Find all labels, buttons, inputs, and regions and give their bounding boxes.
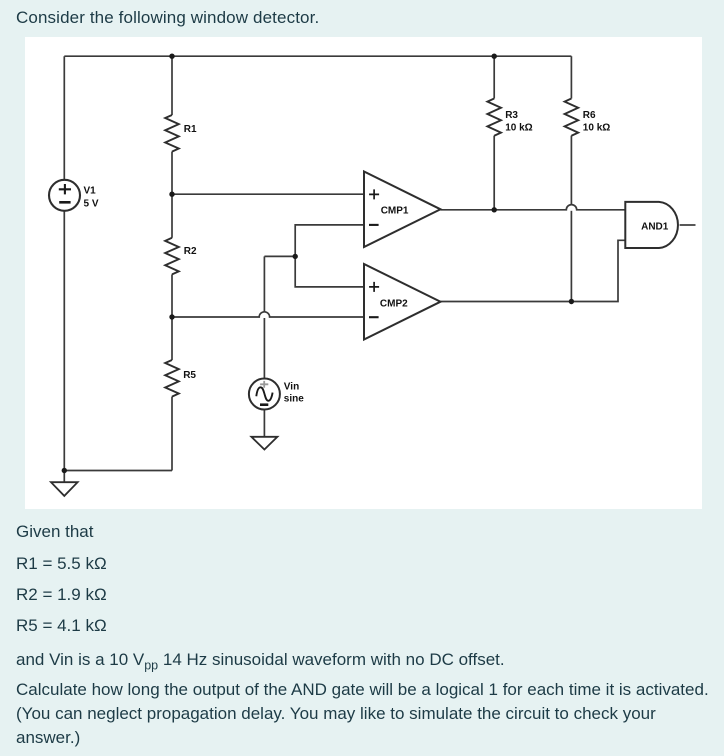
title text [16,8,319,28]
wire R6 bottom upper part [570,136,572,205]
wire left ground stub [63,471,65,483]
voltage source V1 circle [49,180,80,211]
ground left [51,482,78,496]
V1 plus sign [59,184,71,194]
node dot rail R1 [169,54,174,59]
CMP1 plus sign [369,189,379,199]
node dot R1/R2 divider tap [169,192,174,197]
svg-text:R6: R6 [583,110,596,121]
svg-text:CMP2: CMP2 [380,298,408,309]
wire R6 bottom lower part to CMP2 output node [570,211,572,302]
op-amp CMP1 [364,172,441,248]
wire R5 bottom vertical [171,397,173,471]
wire R3 top [493,56,495,98]
svg-text:10 kΩ: 10 kΩ [505,123,532,134]
wire CMP2 output to AND input 2 [441,240,626,301]
wire V1 bottom to ground node [63,211,65,471]
CMP1 minus sign [369,224,379,226]
node dot ground [62,468,67,473]
wire R6 top from rail corner [570,56,572,98]
wire CMP1 output to AND input 1 with hop over R6 wire [441,205,626,210]
node dot Vin junction [293,254,298,259]
svg-text:sine: sine [284,394,304,405]
wire junction to Vin vertical [264,255,295,257]
wire Vin source bottom stub [263,410,265,437]
wire R2/R5 node to CMP2 minus input with hop over Vin wire [172,312,364,317]
node dot rail R3 [492,54,497,59]
ground Vin [251,437,277,450]
node dot R2/R5 divider tap [169,314,174,319]
resistor R3 [487,99,501,136]
wire node to CMP1 plus input [172,193,364,195]
wire junction down to CMP2 plus input [295,256,364,287]
wire R5 top to R2/R5 node [171,317,173,360]
wire top rail [64,55,571,57]
resistor R2 [165,238,179,275]
wire CMP1 minus to junction [295,225,364,257]
source Vin circle [249,379,280,410]
AND gate AND1 [625,202,678,248]
wire R3 bottom to output node [493,136,495,210]
svg-text:AND1: AND1 [641,222,669,233]
wire Vin vertical upper [263,256,265,311]
CMP2 plus sign [369,282,379,292]
resistor R5 [165,360,179,397]
svg-text:R2: R2 [184,246,197,257]
resistor R6 [565,99,579,136]
wire R2 top to R1/R2 node [171,194,173,238]
svg-text:CMP1: CMP1 [381,206,409,217]
white schematic panel [25,37,702,509]
svg-text:R5: R5 [183,370,196,381]
node dot R3/CMP1 output [492,207,497,212]
svg-text:Vin: Vin [284,382,299,393]
wire AND1 output [680,224,696,226]
svg-text:10 kΩ: 10 kΩ [583,123,610,134]
svg-text:V1: V1 [84,186,97,197]
wire R1 bottom to node [171,152,173,195]
wire R1 top to rail [171,56,173,115]
svg-text:R1: R1 [184,124,197,135]
wire Vin vertical lower to source [263,318,265,379]
Vin sine glyph [256,387,272,401]
node dot R6/CMP2 output [569,299,574,304]
wire bottom horizontal [64,470,172,472]
svg-text:R3: R3 [505,110,518,121]
wire left vertical from rail to V1 top [63,56,65,180]
wire R2 bottom to node [171,274,173,317]
svg-text:5 V: 5 V [84,199,99,210]
op-amp CMP2 [364,264,441,340]
body text lines [16,522,94,542]
resistor R1 [165,115,179,152]
Vin plus sign [260,381,268,388]
V1 minus sign [59,201,70,204]
CMP2 minus sign [369,316,379,318]
Vin minus sign [260,403,268,406]
